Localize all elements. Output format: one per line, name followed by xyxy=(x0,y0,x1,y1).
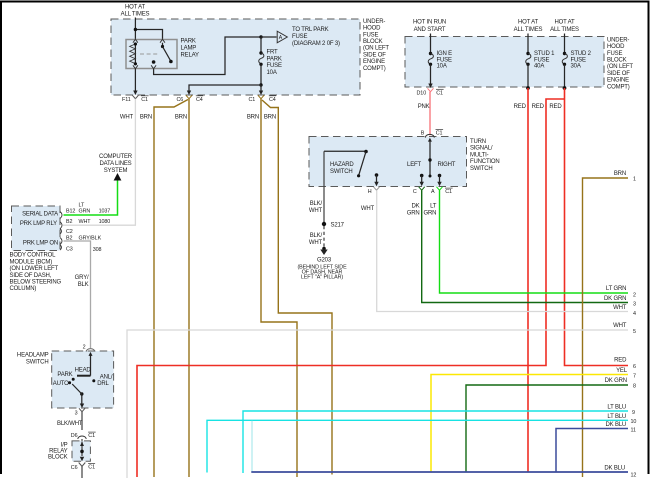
label PARK xyxy=(57,372,72,378)
svg-text:HOOD: HOOD xyxy=(607,44,625,50)
svg-text:C1: C1 xyxy=(88,433,95,439)
svg-text:LAMP: LAMP xyxy=(181,46,197,52)
svg-text:FUSE: FUSE xyxy=(571,57,586,63)
svg-text:FRT: FRT xyxy=(267,50,279,56)
svg-text:BODY CONTROL: BODY CONTROL xyxy=(10,253,57,259)
label BRN 3 xyxy=(247,115,259,121)
svg-text:FUSE: FUSE xyxy=(363,32,378,38)
svg-text:DK GRN: DK GRN xyxy=(604,296,626,302)
label DK GRN pin C xyxy=(407,204,420,217)
svg-text:7: 7 xyxy=(633,374,636,380)
wire RED stud2 to terminal 6 xyxy=(565,88,629,366)
svg-text:HEAD: HEAD xyxy=(75,368,92,374)
label TO TRL PARK FUSE xyxy=(292,27,340,47)
pin B2 xyxy=(60,219,72,229)
svg-text:RED: RED xyxy=(614,358,627,364)
svg-text:SWITCH: SWITCH xyxy=(470,166,493,172)
svg-text:C1: C1 xyxy=(249,97,256,103)
svg-text:HOOD: HOOD xyxy=(363,26,381,32)
wire BLK/WHT hazard to S217 xyxy=(323,151,325,224)
label BRN terminal 1 xyxy=(614,171,636,183)
arrow A to trailer park fuse xyxy=(277,31,287,43)
svg-text:HOT AT: HOT AT xyxy=(518,20,539,26)
svg-text:A: A xyxy=(279,35,283,41)
svg-text:2: 2 xyxy=(633,293,636,299)
wire WHT pin H to terminal 4 xyxy=(377,190,628,311)
headlamp switch contacts xyxy=(68,378,95,385)
wire hot feed into relay xyxy=(135,18,162,40)
svg-text:AND START: AND START xyxy=(414,27,446,33)
pin B12 xyxy=(60,209,75,219)
svg-text:8: 8 xyxy=(633,384,636,390)
svg-text:WHT: WHT xyxy=(120,115,134,121)
wire BLK/WHT S217 to G203 dashed xyxy=(323,226,325,248)
svg-text:PNK: PNK xyxy=(418,104,430,110)
wire WHT 1080 F11 to BCM B2 xyxy=(63,99,135,226)
pin C3 xyxy=(60,238,73,253)
svg-text:RED: RED xyxy=(532,104,545,110)
svg-text:1: 1 xyxy=(633,177,636,183)
node trailer park feed xyxy=(259,35,262,38)
svg-text:DK BLU: DK BLU xyxy=(604,466,625,472)
label BLK/WHT lower xyxy=(309,233,323,246)
svg-text:(ON LEFT: (ON LEFT xyxy=(607,64,633,70)
label ANL DRL xyxy=(97,375,113,388)
svg-text:30A: 30A xyxy=(571,64,581,70)
label SERIAL DATA xyxy=(22,212,58,218)
svg-text:PARK: PARK xyxy=(267,56,282,62)
svg-text:WHT: WHT xyxy=(309,240,323,246)
svg-text:D6: D6 xyxy=(71,433,78,439)
label UNDER-HOOD FUSE BLOCK left xyxy=(363,19,389,72)
label WHT terminal 5 xyxy=(613,323,636,335)
svg-text:LT BLU: LT BLU xyxy=(607,405,626,411)
svg-text:3: 3 xyxy=(75,410,78,416)
wire BRN from C6-C4 straight down xyxy=(188,99,190,477)
svg-text:C1: C1 xyxy=(88,465,95,471)
svg-text:GRN: GRN xyxy=(79,209,91,215)
svg-text:DK GRN: DK GRN xyxy=(605,378,627,384)
svg-text:40A: 40A xyxy=(534,64,544,70)
svg-text:BLK/WHT: BLK/WHT xyxy=(57,421,83,427)
node stud1 exit xyxy=(526,86,530,90)
label C2 xyxy=(60,229,73,235)
wire RED stud1 down xyxy=(527,88,529,472)
relay mechanical link xyxy=(140,53,159,55)
wire LT BLU terminal 10 xyxy=(207,420,628,472)
wire through ip relay block xyxy=(80,439,84,456)
wire RED branch jog to x546 down-left to x137 xyxy=(137,99,565,477)
label RED stud1 xyxy=(514,104,527,110)
wire LT BLU terminal 9 xyxy=(243,411,628,473)
svg-text:STUD 1: STUD 1 xyxy=(534,51,555,57)
svg-text:LEFT: LEFT xyxy=(407,162,421,168)
svg-text:COMPUTER: COMPUTER xyxy=(99,154,133,160)
splice S217 xyxy=(322,222,345,229)
body control module box xyxy=(12,206,61,251)
svg-text:12: 12 xyxy=(631,473,637,478)
svg-text:C1: C1 xyxy=(141,97,148,103)
svg-text:DK BLU: DK BLU xyxy=(605,422,626,428)
label RED terminal 6 xyxy=(614,358,636,371)
pin C6 C1 xyxy=(71,457,95,471)
wire LT GRN pin A to terminal 2 xyxy=(440,190,629,293)
svg-text:BLOCK: BLOCK xyxy=(363,39,383,45)
svg-text:C4: C4 xyxy=(269,97,276,103)
svg-text:BLK: BLK xyxy=(78,282,89,288)
label DK BLU terminal 11 xyxy=(605,422,636,434)
svg-text:COMPT): COMPT) xyxy=(363,66,386,72)
node fuse output xyxy=(259,83,262,86)
svg-text:B2: B2 xyxy=(66,219,72,225)
label DK BLU terminal 12 xyxy=(604,466,636,478)
contact right turn xyxy=(438,174,442,182)
svg-text:C1: C1 xyxy=(445,189,452,195)
wire LT BLU faint drop xyxy=(251,421,253,472)
pin H xyxy=(368,182,380,196)
label BRN 4 xyxy=(264,115,276,121)
label GRY/BLK 308 xyxy=(79,235,102,253)
fuse IGN E 10A xyxy=(428,34,433,85)
wire DK GRN pin C to terminal 3 xyxy=(422,190,628,302)
label STUD 1 FUSE 40A xyxy=(534,51,555,70)
svg-text:IGN E: IGN E xyxy=(437,51,453,57)
svg-text:TO TRL PARK: TO TRL PARK xyxy=(292,27,329,33)
svg-text:LEFT "A" PILLAR): LEFT "A" PILLAR) xyxy=(301,274,344,280)
svg-text:10A: 10A xyxy=(267,70,277,76)
svg-text:ALL TIMES: ALL TIMES xyxy=(514,27,543,33)
svg-text:(ON LOWER LEFT: (ON LOWER LEFT xyxy=(10,266,59,272)
svg-text:G203: G203 xyxy=(317,258,332,264)
wire YEL terminal 7 xyxy=(431,375,628,473)
svg-text:6: 6 xyxy=(633,364,636,370)
label LEFT xyxy=(407,162,421,168)
wire fuse output to pins xyxy=(189,85,261,91)
svg-text:RED: RED xyxy=(514,104,527,110)
svg-text:UNDER-: UNDER- xyxy=(607,37,629,43)
svg-text:LT BLU: LT BLU xyxy=(607,414,626,420)
label PNK xyxy=(418,104,430,110)
node stud2 exit xyxy=(563,86,567,90)
label LT GRN terminal 2 xyxy=(606,286,636,298)
wire BLK/WHT headlamp to IP relay block xyxy=(81,412,83,430)
label HAZARD SWITCH xyxy=(330,162,354,175)
svg-text:11: 11 xyxy=(631,428,636,434)
pin 3 xyxy=(75,404,85,417)
svg-text:C1: C1 xyxy=(436,131,443,137)
label WHT terminal 4 xyxy=(613,305,636,317)
svg-text:BLOCK: BLOCK xyxy=(607,58,627,64)
wire relay switch output to fuse node xyxy=(154,37,260,75)
svg-text:MULTI-: MULTI- xyxy=(470,152,489,158)
fuse STUD 2 30A xyxy=(562,34,567,88)
label UNDER-HOOD FUSE BLOCK right xyxy=(607,37,633,90)
svg-text:1080: 1080 xyxy=(99,219,111,225)
svg-text:TURN: TURN xyxy=(470,139,486,145)
wire BRN from C1-C4 down to x297 xyxy=(261,99,297,477)
wire BRN terminal 1 xyxy=(583,178,629,477)
svg-text:LT GRN: LT GRN xyxy=(606,286,626,292)
turn signal switch arm xyxy=(428,141,431,178)
headlamp switch arm xyxy=(72,384,83,404)
svg-text:FUSE: FUSE xyxy=(534,57,549,63)
svg-text:WHT: WHT xyxy=(361,206,375,212)
svg-text:(ON LEFT: (ON LEFT xyxy=(363,46,389,52)
svg-text:HOT AT: HOT AT xyxy=(554,20,575,26)
svg-text:FUSE: FUSE xyxy=(267,63,282,69)
wire node to arrow A xyxy=(261,36,277,38)
svg-text:LT: LT xyxy=(430,204,437,210)
wire WHT terminal 5 xyxy=(127,330,628,478)
label LT BLU terminal 9 xyxy=(607,405,635,417)
label BRN 2 xyxy=(175,115,187,121)
svg-text:ENGINE: ENGINE xyxy=(363,59,385,65)
svg-text:5: 5 xyxy=(633,329,636,335)
arrow to computer data lines xyxy=(114,173,122,181)
underhood fuse block right box xyxy=(405,37,604,88)
svg-text:PRK LMP RLY: PRK LMP RLY xyxy=(20,221,57,227)
ip relay block box xyxy=(72,441,90,461)
svg-text:C1: C1 xyxy=(436,90,443,96)
label RED stud2 right xyxy=(549,104,562,110)
svg-text:308: 308 xyxy=(93,247,102,253)
svg-text:B: B xyxy=(421,131,425,137)
pin C6 C4 xyxy=(177,91,204,103)
label HOT AT ALL TIMES stud2 xyxy=(550,20,579,33)
svg-text:BRN: BRN xyxy=(175,115,187,121)
pin B2 of C2 xyxy=(66,235,72,241)
label DK GRN terminal 3 xyxy=(604,296,636,308)
svg-text:STUD 2: STUD 2 xyxy=(571,51,592,57)
pin D10 C1 xyxy=(417,84,444,97)
svg-text:DRL: DRL xyxy=(97,381,109,387)
svg-text:GRN: GRN xyxy=(424,211,437,217)
label WHT pin H xyxy=(361,206,375,212)
label LT GRN pin A xyxy=(424,204,437,217)
svg-text:BLK/: BLK/ xyxy=(310,201,323,207)
wire GRY/BLK to headlamp switch xyxy=(64,241,91,348)
svg-text:ALL TIMES: ALL TIMES xyxy=(121,12,150,18)
label STUD 2 FUSE 30A xyxy=(571,51,592,70)
svg-text:BRN: BRN xyxy=(614,171,626,177)
svg-text:SIGNAL/: SIGNAL/ xyxy=(470,146,493,152)
label LT BLU terminal 10 xyxy=(607,414,636,425)
wire DK BLU terminal 12 xyxy=(251,471,628,473)
svg-text:H: H xyxy=(368,189,372,195)
svg-text:UNDER-: UNDER- xyxy=(363,19,385,25)
svg-text:DATA LINES: DATA LINES xyxy=(100,161,132,167)
turn signal multifunction switch box xyxy=(309,137,467,187)
svg-text:BRN: BRN xyxy=(247,115,259,121)
svg-text:DK: DK xyxy=(412,204,420,210)
pin D6 C1 xyxy=(71,432,96,439)
svg-text:FUSE: FUSE xyxy=(607,51,622,57)
label HEADLAMP SWITCH xyxy=(17,352,49,365)
svg-text:2: 2 xyxy=(83,345,86,351)
pin 2 xyxy=(83,345,95,356)
svg-text:C: C xyxy=(413,189,417,195)
svg-text:SWITCH: SWITCH xyxy=(330,169,353,175)
wire PNK D10 to turn signal B xyxy=(429,92,431,136)
label RED branch xyxy=(532,104,545,110)
svg-text:BRN: BRN xyxy=(140,115,152,121)
label IP RELAY BLOCK xyxy=(48,442,68,460)
ground G203 xyxy=(297,247,347,281)
headlamp switch box xyxy=(52,351,114,408)
svg-text:GRY/: GRY/ xyxy=(75,275,89,281)
svg-text:10: 10 xyxy=(631,419,637,425)
svg-text:PARK: PARK xyxy=(57,372,72,378)
label HOT IN RUN AND START xyxy=(413,20,446,33)
svg-text:PRK LMP ON: PRK LMP ON xyxy=(23,241,58,247)
svg-text:ANL/: ANL/ xyxy=(100,375,113,381)
wire DK BLU terminal 11 xyxy=(556,429,628,472)
svg-text:10A: 10A xyxy=(437,64,447,70)
svg-text:C2: C2 xyxy=(66,229,73,235)
svg-text:ALL TIMES: ALL TIMES xyxy=(550,27,579,33)
svg-text:SYSTEM: SYSTEM xyxy=(104,168,128,174)
svg-text:9: 9 xyxy=(632,410,635,416)
svg-text:(DIAGRAM 2 0F 3): (DIAGRAM 2 0F 3) xyxy=(292,41,340,47)
svg-text:C3: C3 xyxy=(66,247,73,253)
wire BRN branch to x332 xyxy=(262,100,332,475)
label BRN 1 xyxy=(140,115,152,121)
label PRK LMP ON xyxy=(23,241,58,247)
svg-text:HOT IN RUN: HOT IN RUN xyxy=(413,20,446,26)
label PARK LAMP RELAY xyxy=(181,39,200,59)
svg-text:4: 4 xyxy=(633,311,636,317)
label RIGHT xyxy=(438,162,456,168)
svg-text:FUSE: FUSE xyxy=(437,57,452,63)
svg-text:SIDE OF: SIDE OF xyxy=(363,52,386,58)
pin F11 C1 xyxy=(122,69,149,103)
label FRT PARK FUSE 10A xyxy=(267,50,282,76)
pin A C1 xyxy=(431,182,453,196)
svg-text:1037: 1037 xyxy=(99,209,111,215)
wire BRN branch to x154 xyxy=(154,100,188,478)
svg-text:B12: B12 xyxy=(66,209,75,215)
label WHT 1080 xyxy=(79,219,111,225)
fuse FRT PARK 10A xyxy=(259,37,264,85)
pin B C1 xyxy=(421,130,443,142)
underhood fuse block left box xyxy=(111,19,360,95)
svg-text:HEADLAMP: HEADLAMP xyxy=(17,352,49,358)
label HOT AT ALL TIMES stud1 xyxy=(514,20,543,33)
label BLK/WHT headlamp xyxy=(57,421,83,427)
label IGN E FUSE 10A xyxy=(437,51,453,70)
svg-text:ENGINE: ENGINE xyxy=(607,78,629,84)
park lamp relay coil xyxy=(130,42,137,65)
svg-text:SWITCH: SWITCH xyxy=(26,359,49,365)
svg-text:RED: RED xyxy=(549,104,562,110)
label COMPUTER DATA LINES SYSTEM xyxy=(99,154,133,174)
svg-text:RIGHT: RIGHT xyxy=(438,162,456,168)
svg-text:FUNCTION: FUNCTION xyxy=(470,159,500,165)
label BLK/WHT upper xyxy=(309,201,323,214)
pin C1 C4 xyxy=(249,91,277,103)
svg-text:WHT: WHT xyxy=(309,208,323,214)
svg-text:YEL: YEL xyxy=(616,368,628,374)
svg-text:BLK/: BLK/ xyxy=(310,233,323,239)
svg-text:SIDE OF: SIDE OF xyxy=(607,71,630,77)
svg-text:SERIAL DATA: SERIAL DATA xyxy=(22,212,58,218)
contact left turn xyxy=(420,174,424,182)
label DK GRN terminal 8 xyxy=(605,378,636,390)
svg-text:PARK: PARK xyxy=(181,39,196,45)
svg-text:SIDE OF DASH,: SIDE OF DASH, xyxy=(10,273,52,279)
label YEL terminal 7 xyxy=(616,368,636,380)
label HOT AT ALL TIMES left xyxy=(121,5,150,18)
svg-text:WHT: WHT xyxy=(613,305,627,311)
hazard switch xyxy=(324,150,378,182)
pin C xyxy=(413,182,425,196)
wire BLK/WHT to bottom xyxy=(81,466,83,478)
park lamp relay switch xyxy=(152,43,173,64)
svg-text:RELAY: RELAY xyxy=(181,53,200,59)
svg-text:C6: C6 xyxy=(71,465,78,471)
svg-text:BRN: BRN xyxy=(264,115,276,121)
wire LT GRN serial data xyxy=(64,180,118,215)
svg-text:F11: F11 xyxy=(122,97,131,103)
wire DK GRN terminal 8 xyxy=(466,385,628,472)
park lamp relay body xyxy=(126,39,177,68)
svg-text:BLOCK: BLOCK xyxy=(48,454,68,460)
svg-text:FUSE: FUSE xyxy=(292,34,307,40)
svg-text:AUTO: AUTO xyxy=(53,381,69,387)
svg-text:D10: D10 xyxy=(417,90,427,96)
label WHT under F11 xyxy=(120,115,134,121)
svg-text:HOT AT: HOT AT xyxy=(125,5,146,11)
svg-text:BELOW STEERING: BELOW STEERING xyxy=(10,280,62,286)
label BODY CONTROL MODULE xyxy=(10,253,62,293)
label PRK LMP RLY xyxy=(20,221,57,227)
svg-text:3: 3 xyxy=(633,302,636,308)
fuse STUD 1 40A xyxy=(526,34,531,88)
label GRY/BLK vertical xyxy=(75,275,89,288)
svg-text:C4: C4 xyxy=(196,97,203,103)
node relay feed xyxy=(134,28,137,31)
headlamp switch head contact xyxy=(75,355,92,376)
svg-text:S217: S217 xyxy=(331,223,345,229)
label TURN SIGNAL MULTIFUNCTION SWITCH xyxy=(470,139,500,172)
svg-text:COLUMN): COLUMN) xyxy=(10,286,37,292)
svg-text:HAZARD: HAZARD xyxy=(330,162,354,168)
svg-text:A: A xyxy=(431,189,435,195)
svg-text:WHT: WHT xyxy=(613,323,627,329)
label LT GRN 1037 xyxy=(79,203,111,215)
svg-text:WHT: WHT xyxy=(79,219,92,225)
svg-text:MODULE (BCM): MODULE (BCM) xyxy=(10,259,53,265)
svg-text:COMPT): COMPT) xyxy=(607,84,630,90)
label AUTO xyxy=(53,381,69,387)
svg-text:GRN: GRN xyxy=(407,211,420,217)
